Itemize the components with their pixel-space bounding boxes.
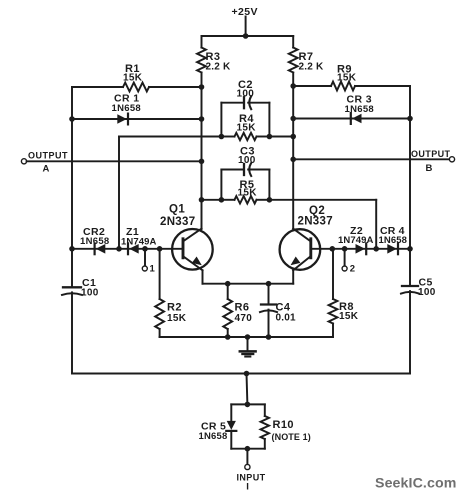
diode CR5 1N658: [199, 404, 237, 448]
svg-text:0.01: 0.01: [276, 313, 297, 324]
node supply junction: [243, 33, 249, 39]
wire C3 box right: [268, 170, 270, 200]
wire C2 box right: [268, 103, 270, 137]
wire riser to Q1 base: [118, 137, 120, 249]
node R6 emitter tap: [225, 281, 231, 287]
node R8 tap: [330, 246, 336, 252]
svg-text:15K: 15K: [123, 72, 143, 83]
svg-text:15K: 15K: [167, 313, 187, 324]
power +25V label: [232, 6, 258, 18]
svg-text:1: 1: [150, 264, 156, 275]
wire right rail upper: [409, 86, 411, 285]
svg-text:100: 100: [418, 287, 436, 298]
resistor R4 15K: [221, 113, 269, 140]
node C4 emitter tap: [266, 281, 272, 287]
wire ground row: [160, 336, 333, 338]
svg-text:470: 470: [235, 313, 253, 324]
wire output B: [293, 158, 449, 160]
wire +25V riser: [245, 17, 247, 37]
wire Q2 collector column: [292, 86, 294, 229]
wire Q2 base row: [311, 248, 410, 250]
svg-text:1N658: 1N658: [80, 236, 110, 247]
wire top supply rail: [202, 35, 294, 37]
svg-text:OUTPUT: OUTPUT: [28, 150, 68, 160]
resistor R9: [293, 63, 410, 90]
resistor R6 470: [223, 284, 252, 337]
svg-text:R6: R6: [235, 302, 250, 314]
zener Z2 1N749A: [338, 225, 373, 254]
wire C3 box left: [220, 170, 222, 200]
wire terminal 1 drop: [144, 249, 146, 266]
node R6 ground tap: [225, 334, 231, 340]
svg-text:OUTPUT: OUTPUT: [411, 149, 450, 159]
node R4 left: [219, 134, 225, 140]
svg-text:1N658: 1N658: [345, 104, 375, 115]
resistor R1: [72, 63, 202, 92]
svg-text:Q1: Q1: [169, 204, 185, 216]
svg-text:R10: R10: [273, 419, 294, 431]
svg-text:100: 100: [237, 89, 255, 100]
wire Q1 emitter drop: [202, 270, 204, 283]
node R2 tap: [157, 246, 163, 252]
wire input box bottom: [231, 448, 264, 450]
node Z2-CR4 junction: [373, 246, 379, 252]
node CR3 left: [290, 116, 296, 122]
wire R4 row left: [119, 136, 221, 138]
wire Q1 base row: [72, 248, 183, 250]
wire input riser: [246, 374, 249, 405]
terminal OUTPUT B: [411, 149, 455, 174]
wire left rail upper: [71, 87, 73, 286]
terminal 2: [342, 264, 355, 275]
ground: [240, 337, 256, 357]
resistor R3: [197, 36, 231, 87]
terminal 1: [142, 264, 155, 275]
wire C2 box left: [220, 103, 222, 137]
terminal INPUT I: [237, 464, 266, 492]
resistor R5 15K: [221, 179, 269, 204]
node terminal-2 tap: [342, 246, 348, 252]
svg-text:100: 100: [238, 155, 256, 166]
svg-text:1N658: 1N658: [112, 103, 142, 114]
node R5 to Q1 collector: [199, 197, 205, 203]
svg-text:1N749A: 1N749A: [338, 235, 373, 246]
svg-text:1N658: 1N658: [379, 235, 408, 246]
svg-text:2N337: 2N337: [298, 216, 333, 228]
node output B junction: [290, 157, 296, 163]
node R9-R7 junction: [290, 83, 296, 89]
wire right rail lower: [409, 291, 411, 373]
wire R4 row right: [269, 136, 293, 138]
svg-text:INPUT: INPUT: [237, 472, 266, 482]
terminal OUTPUT A: [21, 150, 68, 174]
svg-text:15K: 15K: [237, 123, 257, 134]
wire input box top: [231, 403, 264, 405]
node input rail tap: [244, 371, 250, 377]
wire left rail lower: [71, 292, 73, 373]
node R5 right: [267, 197, 273, 203]
resistor R8 15K: [329, 249, 359, 337]
svg-text:2.2 K: 2.2 K: [206, 61, 231, 72]
capacitor C1 100: [62, 277, 99, 299]
svg-text:15K: 15K: [339, 311, 359, 322]
svg-text:1N749A: 1N749A: [121, 237, 156, 248]
capacitor C5 100: [401, 277, 436, 299]
svg-text:(NOTE 1): (NOTE 1): [272, 432, 311, 442]
diode CR4 1N658: [379, 225, 408, 254]
node CR1 left: [69, 116, 75, 122]
diode CR3 1N658: [293, 94, 410, 124]
wire emitter rail: [203, 283, 294, 285]
wire terminal 2 drop: [344, 249, 346, 266]
svg-text:100: 100: [81, 288, 99, 299]
transistor Q2 2N337: [280, 205, 333, 270]
wire Q1 collector column: [201, 87, 203, 229]
svg-text:2.2 K: 2.2 K: [299, 61, 324, 72]
wire R5 row left: [202, 199, 222, 201]
svg-text:2: 2: [350, 264, 355, 275]
watermark SeekIC.com: [375, 476, 456, 492]
resistor R7: [289, 36, 324, 86]
wire input lead: [246, 449, 248, 465]
resistor R2 15K: [155, 249, 187, 337]
node R1-R3 junction: [199, 84, 205, 90]
node CR2-Z1 junction: [116, 246, 122, 252]
capacitor C2 100: [221, 79, 269, 109]
transistor Q1 2N337: [160, 204, 213, 271]
node output A junction: [199, 159, 205, 165]
wire R5 row right: [269, 199, 376, 201]
node R4 to Q2 collector: [290, 134, 296, 140]
wire bottom rail: [72, 373, 410, 375]
svg-text:I: I: [246, 482, 249, 493]
node base row left rail: [69, 246, 75, 252]
svg-text:15K: 15K: [238, 188, 258, 199]
resistor R10 (NOTE 1): [261, 404, 311, 448]
wire riser to Q2 base: [375, 200, 377, 249]
wire Q2 emitter drop: [292, 270, 294, 283]
diode CR1 1N658: [72, 93, 202, 125]
node CR1 right: [199, 116, 205, 122]
node CR3 right: [407, 116, 413, 122]
node R5 left: [219, 197, 225, 203]
svg-text:B: B: [426, 163, 433, 174]
svg-text:1N658: 1N658: [199, 431, 228, 442]
node CR4 right rail: [407, 246, 413, 252]
node ground stem tap: [245, 334, 251, 340]
svg-text:2N337: 2N337: [160, 216, 195, 228]
svg-text:15K: 15K: [337, 73, 357, 84]
svg-text:R2: R2: [167, 302, 182, 314]
diode CR2 1N658: [80, 226, 110, 254]
node C4 ground tap: [266, 334, 272, 340]
capacitor C4 0.01: [260, 284, 296, 337]
wire output A: [27, 160, 202, 162]
node R4 right: [267, 134, 273, 140]
capacitor C3 100: [221, 146, 269, 176]
svg-text:SeekIC.com: SeekIC.com: [375, 476, 456, 492]
svg-text:A: A: [43, 163, 50, 174]
node input box bottom: [245, 446, 251, 452]
node input box top: [245, 402, 251, 408]
zener Z1 1N749A: [121, 226, 156, 254]
node terminal-1 tap: [142, 246, 148, 252]
